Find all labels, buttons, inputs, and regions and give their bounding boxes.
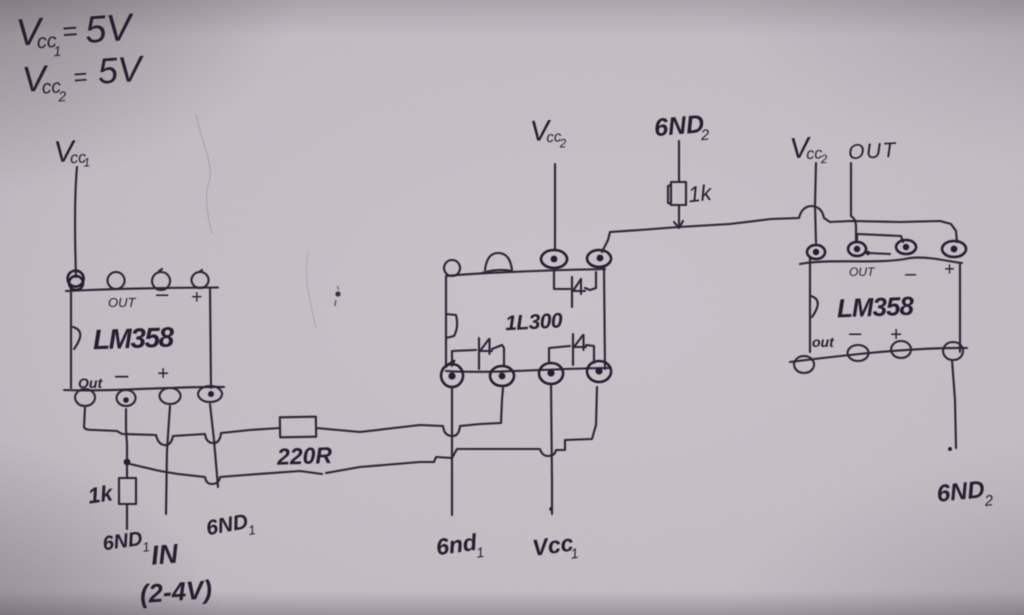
U1 pin 1 (bottom) bbox=[75, 389, 95, 406]
U3 pin 1 (bottom) bbox=[794, 356, 814, 373]
U3 pin 5 (top) bbox=[942, 241, 966, 257]
title equation Vcc2 = 5V bbox=[21, 48, 147, 107]
wire U2 pin5 up and right to U3 bbox=[602, 206, 957, 252]
svg-text:(2-4V): (2-4V) bbox=[139, 574, 213, 609]
U2 bottom pin 4 bbox=[587, 361, 611, 382]
U2 top pin 8 bbox=[444, 260, 460, 276]
svg-text:1L300: 1L300 bbox=[505, 309, 564, 335]
photodiode D3 (bottom right, pins 3-4) bbox=[549, 346, 570, 363]
svg-text:2: 2 bbox=[57, 88, 67, 105]
ink speck on paper bbox=[335, 291, 340, 296]
U2 bottom pin 2 bbox=[490, 366, 514, 386]
photodiode D2 (top, pins 5-6) bbox=[554, 268, 570, 289]
svg-text:5V: 5V bbox=[84, 7, 137, 52]
wire junction to resistor 1k bbox=[126, 465, 128, 478]
wire loop U3 pin7 to pin6 bbox=[857, 234, 903, 242]
svg-text:OUT: OUT bbox=[849, 265, 876, 279]
U3 pin 3 (bottom) bbox=[891, 341, 911, 358]
svg-text:–: – bbox=[904, 263, 917, 285]
wire U1 pin3 down (IN) bbox=[166, 406, 170, 514]
svg-text:OUT: OUT bbox=[848, 139, 899, 165]
svg-text:1: 1 bbox=[53, 43, 62, 60]
resistor 1k (top) bbox=[671, 182, 686, 205]
U3 pin 6 (top) bbox=[896, 240, 916, 254]
svg-text:LM358: LM358 bbox=[836, 291, 914, 324]
U3 notch bbox=[811, 296, 818, 317]
wire 1k to GND1 bbox=[126, 504, 128, 529]
U2 bottom pin 3 bbox=[539, 363, 563, 384]
svg-text:IN: IN bbox=[150, 538, 180, 570]
wire OUT down to U3 pin7 bbox=[851, 163, 856, 242]
svg-text:2: 2 bbox=[558, 136, 567, 150]
wire U2 pin1 down to Gnd1 bbox=[451, 388, 453, 515]
wire U1 pin2 down to junction bbox=[126, 409, 127, 458]
resistor 1k (bottom left) bbox=[119, 478, 136, 504]
svg-text:+: + bbox=[191, 287, 202, 308]
U3 pin 7 (top) bbox=[848, 242, 866, 256]
U2 top pin 6 bbox=[541, 250, 567, 268]
LED D1 (bottom left, pins 1-2) bbox=[452, 350, 476, 366]
svg-text:2: 2 bbox=[819, 152, 828, 167]
node Vcc2 label (right) bbox=[789, 131, 828, 168]
svg-text:=: = bbox=[72, 64, 88, 92]
U1 pin 3 (bottom) bbox=[160, 388, 181, 404]
wire 220R net: U1 pin1 to resistor bbox=[95, 428, 280, 445]
paper scratch 2 (faint) bbox=[306, 253, 316, 328]
wire Vcc2 to U2 pin bbox=[554, 164, 556, 250]
optocoupler U2 IL300 body bbox=[445, 276, 447, 367]
node Vcc1 label (middle bottom) bbox=[531, 529, 580, 567]
svg-text:+: + bbox=[157, 363, 169, 385]
node GND2 label (bottom right) bbox=[935, 475, 994, 515]
U2 top pin 5 bbox=[587, 250, 611, 267]
svg-text:5V: 5V bbox=[96, 48, 146, 92]
node GND2 label (top) bbox=[653, 110, 711, 149]
U3 pin 8 (top) bbox=[807, 245, 825, 259]
svg-text:1k: 1k bbox=[687, 180, 714, 207]
wire U1 pin1 down and right bbox=[84, 407, 95, 430]
U1 pin 8 (top, Vcc) bbox=[68, 271, 84, 290]
U1 pin 7 (top) bbox=[108, 272, 125, 289]
svg-text:–: – bbox=[848, 320, 862, 345]
wire Vcc2 down to U3 pin8 bbox=[815, 163, 816, 243]
short stub at U3 pin7 bbox=[866, 251, 870, 255]
op-amp U1 LM358 body bbox=[70, 289, 72, 388]
svg-text:–: – bbox=[114, 362, 129, 389]
node Vcc1 label (left) bbox=[53, 134, 90, 171]
U2 top pin 7 (hump) bbox=[482, 253, 512, 273]
U2 notch bbox=[446, 314, 457, 338]
svg-text:6ND: 6ND bbox=[935, 476, 986, 508]
svg-text:+: + bbox=[944, 259, 955, 279]
U1 pin 5 (top) bbox=[192, 270, 209, 288]
U1 pin 6 (top) bbox=[152, 269, 170, 290]
svg-text:1: 1 bbox=[83, 155, 90, 169]
wire U2 pin3 down to Vcc1 bbox=[551, 384, 552, 514]
U3 pin 4 (bottom) bbox=[943, 342, 963, 360]
wire 220R to U2 pin2 bbox=[316, 388, 503, 436]
node GND1 label (under U1 pin4) bbox=[204, 509, 256, 545]
svg-text:6ND: 6ND bbox=[653, 110, 705, 142]
wire U3 pin4 down to GND2 bbox=[952, 360, 956, 448]
U2 bottom pin 1 bbox=[441, 361, 463, 387]
op-amp U3 LM358 body bbox=[809, 259, 811, 352]
svg-text:=: = bbox=[61, 16, 78, 47]
U1 pin 4 (bottom) bbox=[198, 386, 222, 402]
title equation Vcc1 = 5V bbox=[15, 5, 137, 62]
svg-text:OUT: OUT bbox=[108, 295, 137, 310]
node Gnd1 label bbox=[434, 528, 485, 566]
wire U1 pin4 down (GND1) bbox=[210, 404, 218, 487]
paper scratch (faint hair) bbox=[196, 114, 212, 234]
svg-text:LM358: LM358 bbox=[92, 321, 175, 355]
svg-text:220R: 220R bbox=[276, 442, 333, 470]
junction node bbox=[124, 459, 131, 466]
wire 1k to junction bbox=[678, 205, 680, 226]
resistor 220R bbox=[280, 417, 316, 438]
op-amp U1 notch bbox=[73, 327, 80, 349]
feedback wire junction to U2 pin4 bbox=[130, 464, 322, 484]
U1 pin 2 (bottom) bbox=[117, 390, 136, 406]
U3 pin 2 (bottom) bbox=[848, 345, 869, 361]
wire Vcc1 down to U1 pin bbox=[75, 167, 77, 277]
node GND1 label (under 1k) bbox=[101, 527, 151, 560]
svg-text:out: out bbox=[812, 334, 835, 350]
wire GND2 down to 1k bbox=[678, 141, 680, 182]
node Vcc2 label (middle) bbox=[529, 114, 567, 152]
svg-text:–: – bbox=[155, 281, 169, 306]
